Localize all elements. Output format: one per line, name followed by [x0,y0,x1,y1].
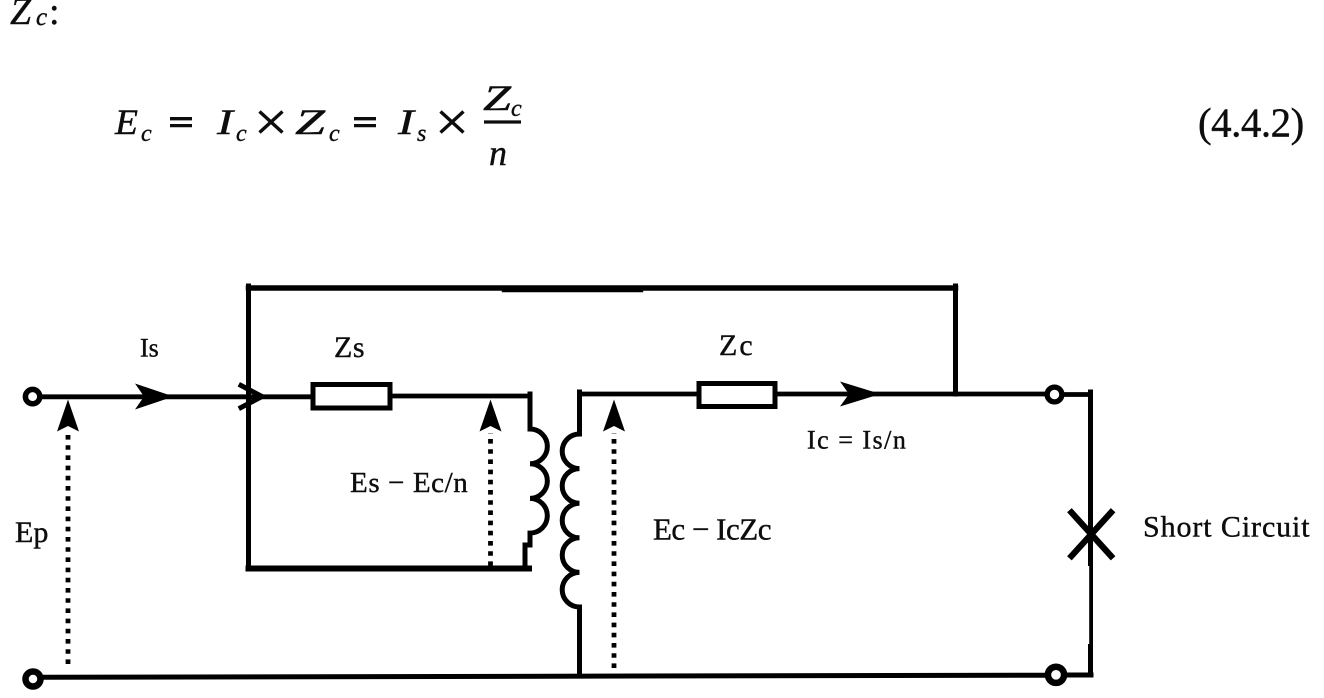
svg-text:I: I [397,102,417,142]
svg-text:Ec − IcZc: Ec − IcZc [653,512,771,547]
svg-text:Z: Z [10,0,32,33]
svg-text:Z: Z [295,102,326,142]
svg-text:s: s [417,121,426,147]
svg-text:Zc: Zc [719,329,755,362]
svg-text:Ic = Is/n: Ic = Is/n [807,426,907,455]
svg-text::: : [49,0,60,33]
svg-text:c: c [141,121,152,147]
svg-text:c: c [36,4,47,31]
svg-text:c: c [511,96,522,122]
svg-text:Ep: Ep [15,516,48,549]
svg-text:n: n [489,133,507,173]
svg-text:Short Circuit: Short Circuit [1143,511,1311,544]
svg-text:c: c [236,121,247,147]
svg-text:Es − Ec/n: Es − Ec/n [350,467,468,499]
svg-text:Zs: Zs [334,331,365,364]
svg-text:c: c [329,121,340,147]
svg-text:E: E [114,102,138,142]
svg-text:(4.4.2): (4.4.2) [1198,100,1304,146]
svg-text:Z: Z [483,78,512,118]
svg-text:I: I [216,102,236,142]
svg-text:Is: Is [140,334,159,363]
